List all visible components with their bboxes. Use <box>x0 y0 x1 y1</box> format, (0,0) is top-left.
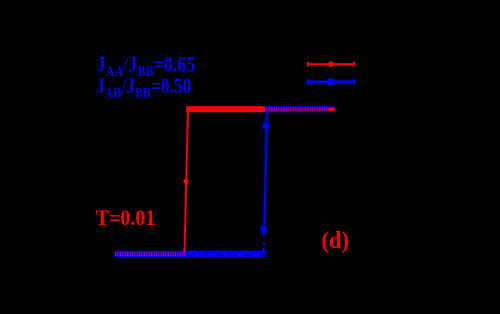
svg-text:(d): (d) <box>322 227 350 254</box>
svg-text:T=0.01: T=0.01 <box>96 205 156 230</box>
